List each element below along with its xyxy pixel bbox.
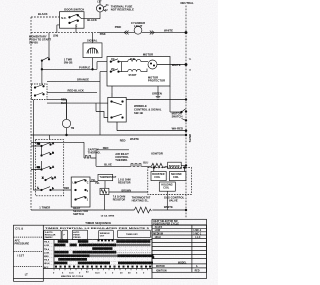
svg-text:MOTOR: MOTOR [156, 266, 165, 268]
svg-text:2M: 2M [111, 68, 114, 71]
svg-text:SENSOR: SENSOR [169, 165, 180, 168]
svg-text:WHITE: WHITE [164, 29, 173, 33]
svg-text:WHITE: WHITE [188, 134, 191, 143]
svg-text:SWITCH: SWITCH [73, 212, 84, 216]
svg-text:AFC: AFC [44, 266, 49, 269]
svg-text:14.0: 14.0 [95, 271, 100, 274]
svg-text:I 1ST: I 1ST [18, 254, 25, 258]
svg-text:2 AUTO: 2 AUTO [45, 231, 53, 234]
svg-text:COIL: COIL [173, 176, 179, 179]
svg-text:MINUTES OF CYCLE: MINUTES OF CYCLE [61, 276, 84, 278]
svg-text:RED: RED [64, 187, 69, 190]
svg-text:REGULAR: REGULAR [45, 234, 56, 237]
svg-text:BLK: BLK [61, 102, 66, 105]
svg-text:CONTROL & SIGNAL: CONTROL & SIGNAL [134, 107, 162, 111]
svg-text:SW-BU: SW-BU [29, 41, 38, 45]
svg-text:BLACK: BLACK [38, 12, 48, 16]
svg-text:PINK: PINK [115, 25, 122, 29]
svg-text:CYL &: CYL & [15, 227, 23, 231]
svg-text:C: C [87, 182, 89, 185]
svg-text:BLACK: BLACK [87, 18, 97, 22]
svg-text:N.O.: N.O. [61, 17, 66, 20]
svg-text:VALVE: VALVE [169, 199, 178, 203]
svg-text:YEL: YEL [91, 179, 96, 182]
svg-text:DOOR SWITCH: DOOR SWITCH [64, 8, 84, 12]
svg-text:RED-BLACK: RED-BLACK [68, 89, 84, 93]
svg-text:HIGH: HIGH [155, 237, 161, 239]
svg-text:L1-C: L1-C [195, 237, 201, 239]
svg-text:(1M): (1M) [53, 35, 58, 38]
svg-text:13.5: 13.5 [69, 272, 74, 274]
svg-text:MEDIUM: MEDIUM [153, 234, 163, 236]
svg-text:FABRIC: FABRIC [45, 236, 53, 239]
svg-text:WHITE: WHITE [164, 205, 173, 209]
svg-text:SWITCH: SWITCH [172, 114, 183, 118]
svg-text:WH-RED: WH-RED [172, 127, 183, 131]
svg-text:7M: 7M [71, 127, 74, 130]
svg-text:RED: RED [103, 146, 109, 150]
svg-text:PURPLE: PURPLE [79, 65, 90, 69]
svg-text:RUN: RUN [130, 58, 136, 61]
svg-text:BROWN: BROWN [122, 189, 132, 192]
svg-text:1 TIMER: 1 TIMER [39, 206, 50, 210]
svg-text:NOT RESETABLE: NOT RESETABLE [111, 8, 134, 12]
svg-text:C: C [76, 25, 78, 28]
svg-text:IGNITOR: IGNITOR [151, 151, 163, 155]
svg-text:LT: LT [25, 272, 28, 276]
svg-text:SIGNAL: SIGNAL [87, 39, 98, 43]
svg-text:WHITE: WHITE [130, 137, 139, 141]
svg-text:SW-2B: SW-2B [64, 60, 73, 64]
svg-text:LOW: LOW [155, 230, 161, 232]
svg-text:PROTECTOR: PROTECTOR [148, 79, 165, 83]
svg-text:14 GA. WIRE: 14 GA. WIRE [101, 215, 115, 218]
svg-text:TIMER SEQUENCE: TIMER SEQUENCE [85, 221, 111, 225]
svg-text:PINK: PINK [100, 33, 106, 36]
svg-text:FLUFF: FLUFF [155, 227, 163, 229]
svg-text:TIMED DRY: TIMED DRY [126, 234, 138, 236]
svg-text:MODEL: MODEL [178, 262, 187, 264]
svg-text:THERMOSTAT: THERMOSTAT [100, 176, 117, 179]
svg-text:TM-4: TM-4 [44, 248, 50, 251]
svg-text:WHITE: WHITE [172, 63, 181, 67]
svg-text:LOW: LOW [44, 245, 49, 247]
svg-text:RESISTOR: RESISTOR [113, 199, 126, 202]
svg-text:HIGH: HIGH [44, 263, 50, 265]
svg-text:1M: 1M [111, 58, 114, 61]
svg-text:PRESS: PRESS [73, 237, 81, 239]
svg-text:MED: MED [44, 256, 49, 258]
svg-text:IGNITION: IGNITION [156, 270, 167, 272]
svg-text:YEL: YEL [95, 182, 100, 185]
svg-text:MOTOR: MOTOR [143, 52, 153, 56]
svg-text:SW-1B: SW-1B [134, 111, 143, 115]
svg-text:NEUTRAL: NEUTRAL [181, 1, 194, 5]
svg-text:ORANGE: ORANGE [77, 77, 89, 81]
svg-text:COIL: COIL [163, 187, 169, 190]
svg-text:BLU: BLU [143, 162, 148, 165]
svg-text:RED: RED [120, 139, 126, 143]
svg-text:POSITION PER CYCLE: POSITION PER CYCLE [153, 224, 179, 226]
svg-text:PRESSURE: PRESSURE [15, 241, 30, 245]
svg-text:TM-8: TM-8 [44, 260, 50, 262]
svg-text:OUT: OUT [100, 236, 105, 238]
svg-text:1-MC-2: 1-MC-2 [193, 230, 202, 232]
svg-text:5M: 5M [37, 167, 40, 169]
svg-text:HEATING EL.: HEATING EL. [132, 199, 150, 203]
svg-text:TM-S: TM-S [44, 242, 50, 244]
svg-text:BLUE: BLUE [104, 162, 112, 166]
svg-text:WRINKLE: WRINKLE [134, 104, 147, 108]
svg-text:THERMO.: THERMO. [115, 158, 128, 162]
svg-text:COIL: COIL [154, 176, 160, 179]
svg-text:RED: RED [195, 270, 200, 272]
svg-text:TIMER ROTATION: L2 REGULATED P: TIMER ROTATION: L2 REGULATED PER MINUTE … [45, 227, 151, 230]
svg-text:RESISTOR: RESISTOR [118, 181, 131, 184]
svg-text:THERMO.: THERMO. [88, 150, 101, 154]
svg-text:LIGHT: LIGHT [134, 24, 143, 28]
svg-text:A: A [196, 265, 198, 268]
svg-text:LOW: LOW [44, 252, 49, 254]
svg-text:AUTO: AUTO [73, 231, 79, 234]
svg-text:7M: 7M [37, 144, 40, 146]
svg-text:1-MC-1: 1-MC-1 [193, 234, 202, 236]
svg-text:GREEN: GREEN [152, 91, 162, 95]
svg-text:START: START [129, 74, 138, 77]
